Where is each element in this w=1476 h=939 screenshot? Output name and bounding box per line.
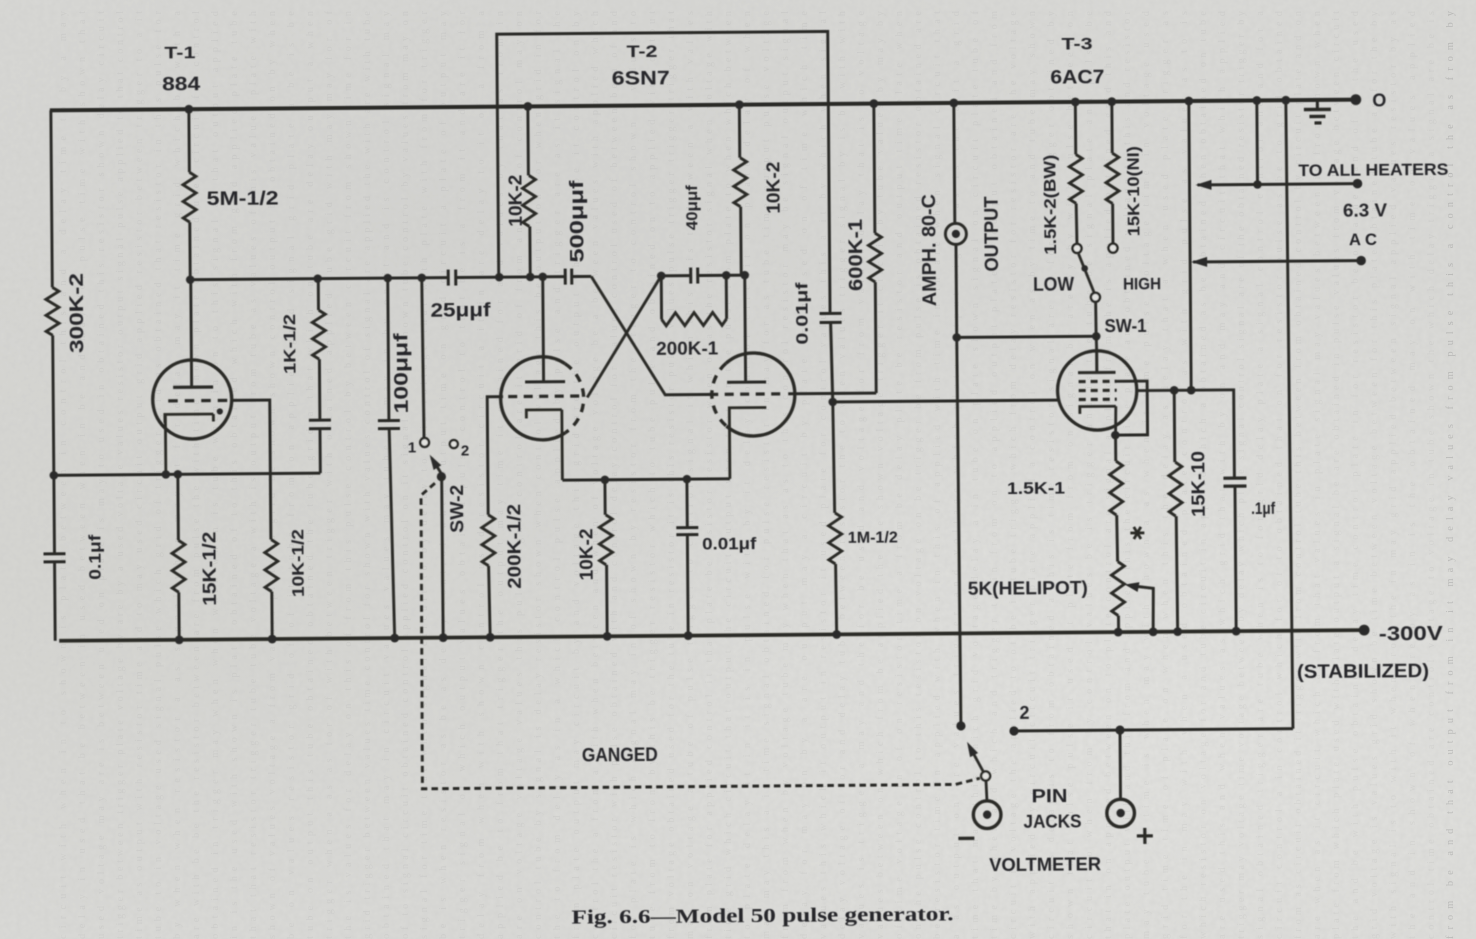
svg-text:JACKS: JACKS: [1023, 811, 1081, 831]
svg-text:VOLTMETER: VOLTMETER: [989, 854, 1101, 875]
svg-text:TO ALL HEATERS: TO ALL HEATERS: [1298, 160, 1448, 180]
T-1 gas dot: [217, 408, 223, 414]
wire: left edge wire: [51, 110, 55, 640]
wire: heater stub: [1255, 100, 1259, 184]
svg-text:are used this and when values: are used this and when values as which g…: [1217, 10, 1228, 939]
resistor 1K-1/2: [312, 310, 325, 359]
node: bottom rail junction dots: [175, 635, 184, 644]
SW-1 pivot: [1091, 293, 1100, 302]
resistor 15K-10: [1174, 390, 1177, 631]
resistor 200K-1 cross: [661, 275, 726, 319]
wire: output column: [954, 103, 961, 726]
terminal pin jack plus: [1119, 730, 1122, 799]
node: cathode junctions: [50, 471, 59, 480]
svg-text:the and be with pulse obtained: the and be with pulse obtained delay tim…: [1350, 10, 1361, 939]
svg-text:circuit resistor with pulse ob: circuit resistor with pulse obtained wit…: [609, 10, 620, 939]
svg-text:15K-10: 15K-10: [1188, 451, 1209, 517]
switch SW-1 contact HIGH: [1108, 244, 1117, 253]
svg-text:1.5K-2(BW): 1.5K-2(BW): [1040, 155, 1060, 255]
svg-text:1: 1: [408, 439, 416, 456]
terminal OUTPUT jack: [945, 223, 966, 244]
svg-text:control the a from a with when: control the a from a with when between a…: [590, 10, 601, 939]
wire: cathode line: [54, 473, 320, 475]
svg-text:the and in shown of when are b: the and in shown of when are by as in is…: [1407, 10, 1418, 939]
resistor 5M-1/2: [183, 172, 196, 222]
resistor 1.5K-1: [1114, 435, 1117, 461]
svg-text:0.1μf: 0.1μf: [85, 534, 104, 580]
svg-text:100μμf: 100μμf: [391, 333, 413, 414]
svg-text:A C: A C: [1349, 230, 1377, 249]
wire: right drop to voltmeter: [1009, 100, 1293, 731]
svg-text:OUTPUT: OUTPUT: [982, 196, 1004, 272]
capacitor 0.01uf cathode: [676, 479, 699, 636]
tube T-1 884 envelope: [152, 360, 232, 440]
capacitor 0.02uf: [308, 279, 332, 474]
capacitor 100uuf branch: [377, 278, 402, 638]
resistor 300K-2: [46, 287, 59, 335]
wire: heater line 1: [1197, 184, 1357, 185]
T-2a grid lead: [487, 397, 504, 515]
svg-text:O: O: [1372, 90, 1386, 110]
svg-text:for plate is which signal may: for plate is which signal may in of show…: [628, 11, 639, 939]
svg-text:HIGH: HIGH: [1123, 274, 1161, 293]
svg-text:10K-2: 10K-2: [576, 528, 596, 580]
terminal pin jack minus: [973, 801, 1001, 829]
svg-text:0.01μf: 0.01μf: [702, 534, 757, 553]
svg-text:6AC7: 6AC7: [1050, 67, 1104, 88]
switch SW-2 wire: [422, 278, 424, 438]
svg-text:.1μf: .1μf: [1251, 499, 1275, 518]
T-2b plate: [726, 275, 766, 382]
svg-text:AMPH. 80-C: AMPH. 80-C: [919, 194, 941, 306]
capacitor 0.01uf coupling: [820, 313, 843, 402]
wire: screen feed from rail: [1189, 101, 1191, 390]
resistor 1.5K-2(BW): [1075, 102, 1077, 244]
T-3 grids dashed: [1079, 380, 1117, 384]
T-2a plate: [524, 277, 565, 382]
wire: cross coupling from T-2a grid: [586, 276, 662, 398]
capacitor 0.1uf: [43, 554, 65, 562]
node: 40uuf bus dots: [657, 272, 666, 281]
svg-text:T-3: T-3: [1061, 34, 1092, 53]
potentiometer 5K helipot: [1111, 562, 1124, 616]
T-2 envelope bracket: [497, 31, 830, 316]
svg-text:-300V: -300V: [1379, 623, 1444, 646]
node: grid junction: [828, 398, 837, 407]
T-2a cathode: [526, 410, 562, 481]
svg-text:40μμf: 40μμf: [684, 184, 701, 230]
SW-2 pivot: [437, 472, 446, 481]
resistor 1M-1/2: [833, 402, 837, 635]
svg-text:PIN: PIN: [1031, 786, 1067, 806]
capacitor 25uuf: [448, 270, 456, 286]
wire: timing bus: [190, 276, 591, 279]
T-3 suppressor tie: [1115, 381, 1148, 435]
svg-text:6.3 V: 6.3 V: [1343, 200, 1387, 220]
tube T-2a triode: [500, 357, 565, 441]
capacitor .1uf: [1223, 478, 1246, 486]
svg-text:T-2: T-2: [626, 42, 657, 61]
svg-text:10K-2: 10K-2: [763, 162, 783, 214]
svg-text:GANGED: GANGED: [582, 745, 658, 767]
asterisk: [1130, 531, 1144, 534]
svg-text:Fig. 6.6—Model 50 pulse genera: Fig. 6.6—Model 50 pulse generator.: [571, 903, 953, 928]
svg-text:5K(HELIPOT): 5K(HELIPOT): [968, 578, 1088, 599]
svg-text:are on voltage voltage values: are on voltage voltage values this pulse…: [514, 10, 525, 939]
svg-text:15K-10(NI): 15K-10(NI): [1123, 146, 1143, 236]
plus sign: [1137, 834, 1153, 837]
svg-text:1.5K-1: 1.5K-1: [1007, 478, 1065, 497]
svg-text:10K-1/2: 10K-1/2: [288, 529, 308, 597]
svg-text:2: 2: [461, 442, 469, 459]
svg-text:be resistor time in applied wi: be resistor time in applied with when in…: [932, 11, 943, 939]
wire: T-2 cathode bus: [562, 479, 729, 480]
svg-text:15K-1/2: 15K-1/2: [199, 532, 220, 606]
svg-text:2: 2: [1019, 703, 1029, 723]
T-3 cathode: [1080, 406, 1116, 435]
T-1 grid lead: [231, 400, 271, 474]
terminal -300V end: [1359, 625, 1370, 636]
svg-text:LOW: LOW: [1033, 275, 1074, 296]
wire: T-1 plate lead: [189, 280, 193, 387]
svg-text:SW-2: SW-2: [447, 485, 467, 533]
wire: ganged dashed link: [420, 479, 980, 789]
SW-2 contact 2: [450, 440, 458, 448]
wire: T-1 plate column: [189, 109, 190, 279]
SW-1 arm: [1079, 254, 1095, 294]
wire: heater line 2: [1193, 261, 1361, 262]
svg-text:0.01μf: 0.01μf: [792, 282, 812, 345]
resistor 15K-1/2: [178, 474, 179, 639]
svg-text:SW-1: SW-1: [1104, 316, 1146, 336]
T-2a grid dashed: [508, 394, 584, 398]
wire: T-3 screen line: [1137, 390, 1235, 479]
capacitor 500uuf: [565, 269, 572, 285]
svg-text:600K-1: 600K-1: [846, 218, 868, 291]
node: bus dots: [186, 275, 195, 284]
node: output junction: [952, 333, 961, 342]
resistor 200K-1/2: [482, 515, 495, 566]
svg-text:trigger signal of which output: trigger signal of which output values ob…: [457, 11, 468, 939]
wire: cross coupling to T-2b grid: [591, 275, 709, 395]
T-2b grid dashed: [709, 392, 784, 396]
resistor 10K-2 cathode: [605, 480, 607, 637]
minus sign: [958, 837, 974, 841]
resistor 10K-2 right: [739, 105, 744, 276]
T-1 cathode: [165, 414, 214, 474]
helipot wiper: [1133, 586, 1154, 632]
T-2b cathode: [729, 407, 767, 478]
resistor 10K-1/2: [270, 474, 272, 639]
SW-2 arm: [432, 458, 442, 474]
svg-text:circuit to when from by contro: circuit to when from by control values b…: [1084, 11, 1095, 939]
tube T-3 6AC7 envelope: [1057, 351, 1137, 431]
wire: top 0V rail: [50, 100, 1356, 111]
svg-text:200K-1: 200K-1: [656, 338, 718, 359]
svg-text:5M-1/2: 5M-1/2: [207, 189, 279, 211]
svg-text:trigger when a as as for of wi: trigger when a as as for of with between…: [324, 10, 335, 939]
svg-text:10K-2: 10K-2: [505, 175, 525, 227]
svg-text:6SN7: 6SN7: [612, 68, 670, 89]
svg-text:25μμf: 25μμf: [430, 300, 491, 321]
svg-text:884: 884: [162, 74, 201, 95]
tube T-2b triode: [726, 353, 795, 437]
switch SW-1 contact LOW: [1072, 244, 1081, 253]
svg-text:200K-1/2: 200K-1/2: [504, 504, 525, 589]
svg-text:1M-1/2: 1M-1/2: [848, 530, 898, 547]
resistor 10K-2 left: [528, 106, 530, 277]
ground symbol: [1316, 100, 1319, 109]
wire: to SW-1: [957, 336, 1096, 337]
svg-text:T-1: T-1: [164, 43, 195, 62]
wire: junction to T-3 grid: [833, 400, 1058, 402]
SW-2 contact 1: [420, 438, 429, 447]
node: top rail junction dots: [184, 105, 193, 114]
T-1 grid dashed: [168, 399, 228, 403]
T-1 plate bar: [173, 385, 213, 389]
capacitor 40uuf: [691, 268, 698, 284]
svg-text:values between on which from b: values between on which from be applied …: [875, 10, 886, 939]
T-3 plate: [1078, 351, 1116, 373]
svg-text:300K-2: 300K-2: [66, 273, 88, 353]
svg-text:(STABILIZED): (STABILIZED): [1297, 661, 1429, 683]
terminal 0V end: [1350, 94, 1361, 105]
wire: bottom -300V rail: [59, 630, 1364, 641]
voltmeter switch: [956, 721, 965, 730]
svg-text:on the pulse control to this r: on the pulse control to this resistor on…: [913, 11, 924, 939]
SW-2 wire to rail: [442, 477, 444, 638]
resistor 600K-1: [874, 104, 876, 393]
svg-text:500μμf: 500μμf: [567, 180, 589, 263]
wire: T-2b grid to 600K: [788, 392, 876, 396]
wire: 40uuf bus: [661, 274, 744, 278]
svg-text:1K-1/2: 1K-1/2: [280, 314, 299, 374]
resistor 15K-10(NI): [1112, 102, 1113, 244]
node: cathode junction: [1111, 431, 1120, 440]
